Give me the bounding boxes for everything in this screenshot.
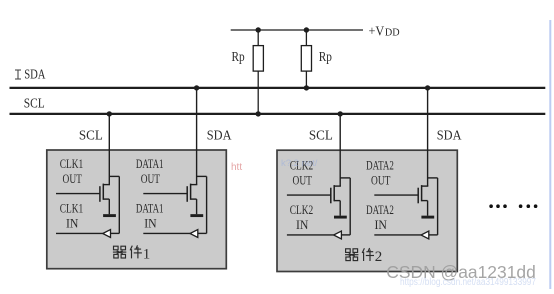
wire Q3 pin drop from bus: [339, 114, 341, 186]
device name label 器件1: [113, 245, 142, 258]
svg-text:IN: IN: [296, 218, 308, 232]
transistor Q2 drain lead: [191, 184, 198, 186]
wire Q2 right rail down to buffer input: [206, 176, 208, 233]
transistor Q4 drain lead: [422, 185, 429, 187]
transistor Q2 channel bar: [190, 184, 192, 200]
wire Rp1 top stub: [257, 30, 259, 46]
wire Q1 pin drop from bus: [108, 114, 110, 185]
svg-text:CLK1: CLK1: [60, 157, 84, 171]
svg-text:OUT: OUT: [293, 174, 313, 188]
wire Q1 source down to ground: [108, 199, 110, 214]
ground symbol Q1: [103, 214, 116, 217]
transistor Q4 gate bar: [417, 188, 419, 204]
VDD power rail wire: [231, 29, 363, 31]
wire Q4 jog to buffer rail: [428, 177, 438, 179]
svg-text:2: 2: [375, 249, 383, 265]
transistor Q1 source lead: [103, 198, 109, 200]
wire gate lead from DATA1 OUT: [143, 193, 187, 195]
svg-text:CLK1: CLK1: [60, 201, 84, 215]
transistor Q1 drain lead: [103, 184, 110, 186]
ground symbol Q3: [334, 216, 347, 219]
wire Q2 source down to ground: [196, 199, 198, 214]
wire gate lead from CLK2 OUT: [287, 194, 331, 196]
transistor Q1 channel bar: [102, 184, 104, 200]
transistor Q4 channel bar: [421, 185, 423, 201]
svg-text:IN: IN: [144, 216, 156, 230]
wire Q3 right rail down to buffer input: [349, 178, 351, 235]
wire buffer output to CLK1 IN: [56, 232, 103, 234]
wire Q4 right rail down to buffer input: [437, 178, 439, 235]
wire Q4 pin drop from bus: [427, 88, 429, 186]
ground symbol Q4: [421, 216, 434, 219]
svg-text:OUT: OUT: [141, 172, 161, 186]
wire buffer output to DATA2 IN: [374, 234, 421, 236]
input buffer Q3B (triangle): [334, 231, 342, 239]
transistor Q3 gate bar: [330, 188, 332, 204]
+VDD label: [369, 24, 400, 39]
text cursor I-beam artifact: [15, 70, 21, 79]
svg-text:+V: +V: [369, 24, 385, 39]
watermark vertical blue line: [549, 20, 551, 289]
svg-text:https://blog.csdn.net/aa314991: https://blog.csdn.net/aa31499133997: [400, 277, 536, 288]
junction SDA / Rp2: [304, 85, 309, 90]
wire Q3 jog to buffer rail: [340, 177, 350, 179]
resistor Rp1: [253, 46, 263, 72]
ground symbol Q2: [190, 214, 203, 217]
transistor Q3 source lead: [334, 200, 340, 202]
svg-text:IN: IN: [66, 216, 78, 230]
junction SCL / Rp1: [256, 111, 261, 116]
svg-text:SDA: SDA: [24, 67, 45, 82]
input buffer Q1B (triangle): [103, 230, 111, 238]
wire Q1 jog to buffer rail: [109, 175, 119, 177]
svg-text:DD: DD: [385, 26, 400, 38]
svg-text:SDA: SDA: [437, 129, 462, 144]
transistor Q1 gate bar: [99, 186, 101, 202]
junction VDD-Rp2: [304, 27, 309, 32]
wire buffer output to CLK2 IN: [287, 234, 334, 236]
wire Q2 jog to buffer rail: [197, 175, 207, 177]
wire buffer input lead Q3: [341, 234, 350, 236]
transistor Q3 drain lead: [334, 185, 341, 187]
wire buffer input lead Q4: [429, 234, 438, 236]
svg-text:IN: IN: [375, 218, 387, 232]
svg-text:k?.2 net/: k?.2 net/: [281, 158, 318, 169]
svg-text:SDA: SDA: [207, 129, 232, 144]
wire buffer input lead Q2: [198, 232, 207, 234]
wire buffer output to DATA1 IN: [143, 232, 190, 234]
wire Q4 source down to ground: [427, 201, 429, 216]
wire Rp1 bottom stub to SCL (crosses SDA): [257, 71, 259, 114]
svg-text:DATA2: DATA2: [366, 159, 394, 173]
junction SDA / device2 DATA pin: [425, 85, 430, 90]
transistor Q2 source lead: [191, 198, 197, 200]
svg-text:SCL: SCL: [309, 129, 333, 144]
transistor Q3 channel bar: [333, 185, 335, 201]
svg-text:CLK2: CLK2: [290, 203, 314, 217]
input buffer Q2B (triangle): [190, 230, 198, 238]
input buffer Q4B (triangle): [421, 231, 429, 239]
device box 器件1: [47, 150, 227, 269]
svg-text:SCL: SCL: [24, 95, 45, 110]
svg-text:OUT: OUT: [63, 172, 83, 186]
device box 器件2: [277, 150, 457, 271]
transistor Q4 source lead: [422, 200, 428, 202]
wire Q3 source down to ground: [339, 201, 341, 216]
svg-text:SCL: SCL: [79, 129, 103, 144]
wire buffer input lead Q1: [110, 232, 119, 234]
svg-text:Rp: Rp: [232, 49, 245, 64]
continuation dots (more devices): [489, 204, 537, 208]
wire gate lead from CLK1 OUT: [56, 193, 100, 195]
wire gate lead from DATA2 OUT: [374, 194, 418, 196]
junction SCL / device1 CLK pin: [107, 111, 112, 116]
wire Rp2 top stub: [305, 30, 307, 46]
wire Q2 pin drop from bus: [196, 88, 198, 185]
junction SCL / device2 CLK pin: [338, 111, 343, 116]
junction SDA / device1 DATA pin: [194, 85, 199, 90]
junction VDD-Rp1: [256, 27, 261, 32]
svg-text:DATA1: DATA1: [136, 157, 164, 171]
SCL bus wire: [10, 113, 546, 115]
wire Q1 right rail down to buffer input: [118, 176, 120, 233]
resistor Rp2: [301, 46, 311, 72]
wire Rp2 bottom stub to SDA: [305, 71, 307, 88]
transistor Q2 gate bar: [186, 186, 188, 202]
svg-text:Rp: Rp: [319, 49, 332, 64]
svg-text:DATA2: DATA2: [366, 203, 394, 217]
SDA bus wire: [10, 87, 546, 89]
svg-text:1: 1: [143, 246, 151, 262]
svg-text:OUT: OUT: [371, 174, 391, 188]
svg-text:DATA1: DATA1: [136, 201, 164, 215]
device name label 器件2: [345, 248, 374, 261]
svg-text:htt: htt: [231, 162, 242, 173]
